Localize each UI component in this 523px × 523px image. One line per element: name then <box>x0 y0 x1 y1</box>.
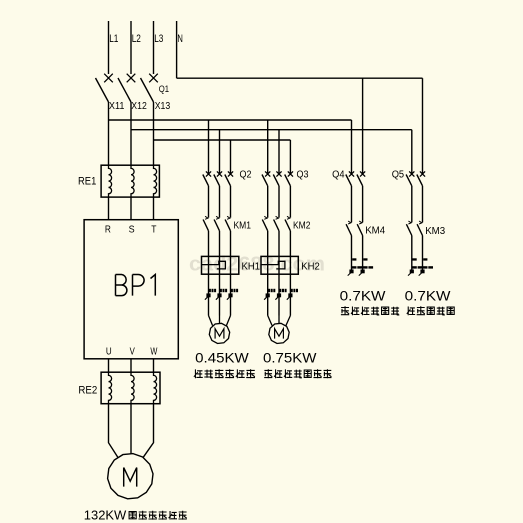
contactor KM4 pole 1 <box>346 221 351 236</box>
terminal flag KH2 pole 1 wire number <box>264 289 275 300</box>
wire RE1 to BP1 phase 3 <box>153 197 155 220</box>
reactor RE1 winding 1 <box>109 165 112 197</box>
contactor KM1 pole 3 <box>225 216 230 231</box>
wire KH1 to motor pole 1 <box>208 274 210 315</box>
wire Q2 to KM1 pole 1 <box>208 186 210 218</box>
wire Q3 to KM2 pole 1 <box>267 186 269 218</box>
circuit breaker Q1 pole 3 <box>141 74 158 102</box>
svg-text:T: T <box>151 224 157 236</box>
wire KH2 to motor pole 3 <box>289 274 291 315</box>
svg-text:0.75KW: 0.75KW <box>263 349 317 365</box>
svg-text:0.45KW: 0.45KW <box>195 349 249 365</box>
wire KM1 to KH1 pole 3 <box>230 231 232 257</box>
svg-text:Q1: Q1 <box>159 84 169 95</box>
terminal marks KM3 pole 1 <box>412 258 422 268</box>
wire Q2 to KM1 pole 2 <box>219 186 221 218</box>
wire KH1 into motor left <box>209 316 213 326</box>
wire KH1 into motor right <box>226 316 230 326</box>
wire KM4 down pole 1 <box>351 236 353 271</box>
label 空冷风机电机 <box>129 511 187 520</box>
svg-text:0.7KW: 0.7KW <box>340 287 387 303</box>
wire Q4 to KM4 pole 1 <box>351 186 353 223</box>
wire phase bus 1 <box>109 119 352 121</box>
contactor KM3 pole 1 <box>406 221 411 236</box>
wire bus1 drop Q4 <box>351 120 353 174</box>
wire KH1 to motor pole 3 <box>230 274 232 315</box>
inverter BP1 box <box>84 220 178 359</box>
svg-text:RE2: RE2 <box>78 385 97 397</box>
wire bus1 drop Q2 <box>208 120 210 174</box>
wire N drop to Q4 <box>362 78 364 174</box>
svg-text:L3: L3 <box>154 33 163 45</box>
motor circle 0.75KW <box>269 323 289 343</box>
terminal flag KH2 pole 2 wire number <box>275 289 286 300</box>
wire Q5 to KM3 pole 2 <box>422 186 424 223</box>
svg-text:Q2: Q2 <box>240 170 252 181</box>
breaker Q5 pole 2 <box>417 171 425 185</box>
wire RE1 to BP1 phase 2 <box>130 197 132 220</box>
wire KM3 down pole 2 <box>422 236 424 271</box>
svg-text:X13: X13 <box>155 100 171 112</box>
svg-text:X12: X12 <box>131 100 147 112</box>
wire RE1 to BP1 phase 1 <box>108 197 110 220</box>
svg-text:Q5: Q5 <box>392 170 405 181</box>
wire end arrow KM4 pole 1 <box>348 270 354 276</box>
thermal relay KH1 element <box>202 261 226 269</box>
wire BP1 output 3 <box>153 359 155 372</box>
wire BP1 output 1 <box>108 359 110 372</box>
wire Q5 to KM3 pole 1 <box>411 186 413 223</box>
reactor RE1 winding 3 <box>154 165 157 197</box>
wire KH2 into motor right <box>286 316 291 326</box>
contactor KM2 pole 1 <box>262 216 267 231</box>
thermal relay KH2 box <box>261 256 298 274</box>
wire KM1 to KH1 pole 2 <box>219 231 221 257</box>
thermal relay KH2 element <box>261 261 285 269</box>
wire KH1 to motor pole 2 <box>219 274 221 315</box>
wire X11 drop <box>108 102 110 165</box>
svg-text:KM4: KM4 <box>365 226 385 237</box>
svg-text:RE1: RE1 <box>78 175 96 187</box>
wire end arrow KM4 pole 2 <box>359 270 365 276</box>
circuit breaker Q1 pole 2 <box>118 74 135 102</box>
wire KM2 to KH2 pole 2 <box>278 231 280 257</box>
svg-text:KH2: KH2 <box>301 261 320 272</box>
wire Q3 to KM2 pole 3 <box>289 186 291 218</box>
contactor KM1 pole 1 <box>203 216 208 231</box>
wire KH1 through pole 2 <box>219 256 221 274</box>
svg-text:U: U <box>106 346 112 358</box>
svg-text:N: N <box>177 33 183 45</box>
wire phase bus 2 <box>131 129 412 131</box>
svg-text:Q3: Q3 <box>297 170 309 181</box>
wire X12 drop <box>130 102 132 165</box>
breaker Q5 pole 1 <box>406 171 414 185</box>
wire Q4 to KM4 pole 2 <box>362 186 364 223</box>
contactor KM3 pole 2 <box>417 221 422 236</box>
wire bus2 drop Q3 <box>278 130 280 174</box>
reactor RE1 winding 2 <box>131 165 134 197</box>
svg-text:W: W <box>150 346 157 358</box>
reactor RE2 winding 2 <box>131 372 134 404</box>
reactor RE2 winding 1 <box>109 372 112 404</box>
wire N incoming <box>176 21 178 78</box>
wire KH2 through pole 2 <box>278 256 280 274</box>
wire KH2 into motor mid <box>278 316 280 324</box>
svg-text:S: S <box>129 224 135 236</box>
wire phase bus 3 <box>154 139 291 141</box>
wire bus3 drop Q2 <box>230 140 232 174</box>
svg-text:V: V <box>130 346 135 358</box>
breaker Q3 pole 3 <box>285 171 293 185</box>
svg-text:R: R <box>105 224 111 236</box>
contactor KM1 pole 2 <box>214 216 219 231</box>
wire bus2 drop Q2 <box>219 130 221 174</box>
wire bus1 drop Q3 <box>267 120 269 174</box>
label BP1 <box>116 275 156 296</box>
terminal flag KH2 pole 3 wire number <box>287 289 298 300</box>
wire motor U <box>109 404 118 458</box>
breaker Q2 pole 3 <box>225 171 233 185</box>
svg-text:L2: L2 <box>132 33 141 45</box>
terminal marks KM4 pole 2 <box>363 258 373 268</box>
wire motor V <box>130 404 132 454</box>
label 减速箱加热器 <box>341 306 399 315</box>
svg-text:X11: X11 <box>109 100 125 112</box>
wire KH2 to motor pole 2 <box>278 274 280 315</box>
svg-text:132KW: 132KW <box>84 507 127 522</box>
wire KH1 into motor mid <box>219 316 221 324</box>
terminal flag KH1 pole 1 wire number <box>205 289 216 300</box>
breaker Q3 pole 1 <box>262 171 270 185</box>
wire L1 incoming <box>108 21 110 74</box>
wire KH2 through pole 1 <box>267 256 269 274</box>
svg-text:0.7KW: 0.7KW <box>405 287 452 303</box>
terminal flag KH1 pole 3 wire number <box>227 289 238 300</box>
motor circle 0.45KW <box>209 323 229 343</box>
motor letter M 0.75KW <box>275 329 284 339</box>
svg-text:KM1: KM1 <box>234 220 252 231</box>
svg-text:KM3: KM3 <box>425 226 445 237</box>
wire N bus <box>177 77 423 79</box>
wire bus2 drop Q5 <box>411 130 413 174</box>
reactor RE1 box <box>101 165 159 197</box>
breaker Q4 pole 2 <box>357 171 365 185</box>
breaker Q2 pole 1 <box>203 171 211 185</box>
terminal marks KM4 pole 1 <box>352 258 362 268</box>
wire KH2 through pole 3 <box>289 256 291 274</box>
wire KM2 to KH2 pole 1 <box>267 231 269 257</box>
reactor RE2 box <box>101 372 160 404</box>
motor M1 letter M <box>124 468 137 487</box>
breaker Q2 pole 2 <box>214 171 222 185</box>
reactor RE2 winding 3 <box>154 372 157 404</box>
wire KH2 to motor pole 1 <box>267 274 269 315</box>
wire X13 drop <box>153 102 155 165</box>
motor letter M 0.45KW <box>215 329 224 339</box>
wire BP1 output 2 <box>130 359 132 372</box>
contactor KM2 pole 3 <box>285 216 290 231</box>
wire Q3 to KM2 pole 2 <box>278 186 280 218</box>
circuit breaker Q1 pole 1 <box>96 74 113 102</box>
svg-text:KM2: KM2 <box>293 220 311 231</box>
wire end arrow KM3 pole 2 <box>419 270 425 276</box>
wire end arrow KM3 pole 1 <box>408 270 414 276</box>
wire L2 incoming <box>130 21 132 74</box>
wire KH1 through pole 3 <box>230 256 232 274</box>
label 电机加热器 <box>407 306 454 315</box>
wire KH2 into motor left <box>268 316 272 326</box>
svg-text:L1: L1 <box>109 33 118 45</box>
wire motor W <box>143 404 153 458</box>
wire N drop to Q5 <box>422 78 424 174</box>
wire Q2 to KM1 pole 3 <box>230 186 232 218</box>
wire KM3 down pole 1 <box>411 236 413 271</box>
wire KH1 through pole 1 <box>208 256 210 274</box>
wire L3 incoming <box>153 21 155 74</box>
breaker Q4 pole 1 <box>346 171 354 185</box>
wire KM2 to KH2 pole 3 <box>289 231 291 257</box>
svg-text:Q4: Q4 <box>332 170 345 181</box>
contactor KM2 pole 2 <box>274 216 279 231</box>
label 减速箱润滑油泵 <box>264 369 331 378</box>
contactor KM4 pole 2 <box>357 221 362 236</box>
breaker Q3 pole 2 <box>273 171 281 185</box>
motor M1 132KW circle <box>108 454 153 499</box>
terminal flag KH1 pole 2 wire number <box>216 289 227 300</box>
terminal marks KM3 pole 2 <box>423 258 433 268</box>
thermal relay KH1 box <box>202 256 239 274</box>
wire KM4 down pole 2 <box>362 236 364 271</box>
wire KM1 to KH1 pole 1 <box>208 231 210 257</box>
wire bus3 drop Q3 <box>289 140 291 174</box>
svg-text:KH1: KH1 <box>242 261 261 272</box>
label 冷却风扇电机 <box>194 369 255 378</box>
